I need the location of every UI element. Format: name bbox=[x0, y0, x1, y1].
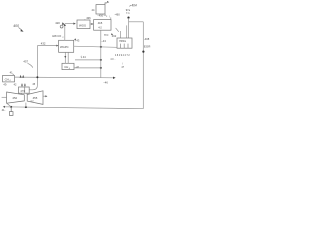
valve 420 symbol bbox=[62, 22, 65, 25]
label 412 bbox=[2, 108, 6, 112]
label 440 bbox=[92, 8, 95, 12]
wire WGS to 418 bbox=[90, 23, 92, 25]
WGS box bbox=[77, 20, 90, 29]
svg-text:41-: 41- bbox=[2, 108, 6, 112]
label H2 N2 bbox=[104, 34, 109, 37]
wire y68 condenser to downcomer bbox=[74, 67, 101, 69]
svg-text:H N: H N bbox=[104, 34, 109, 37]
EGR leader dot bbox=[142, 51, 144, 53]
svg-text:WGS: WGS bbox=[79, 24, 86, 28]
wire exhaust riser to HRSG bbox=[128, 18, 130, 38]
combustor to turbine stub bbox=[26, 93, 28, 94]
label 460 bbox=[114, 13, 120, 17]
combustor to compressor stub bbox=[20, 93, 22, 94]
wire top branch to EGR bbox=[129, 21, 144, 23]
svg-text:HRSG: HRSG bbox=[119, 40, 126, 43]
compressor inlet diagonal bbox=[7, 103, 11, 107]
labels below HRSG bbox=[115, 55, 130, 57]
tab on 442 bbox=[105, 3, 107, 5]
junction dot fuel/riser bbox=[36, 76, 38, 78]
combustor feed lines bbox=[21, 83, 23, 87]
labels 4?4 right middle bbox=[122, 63, 123, 66]
leader arrow for 400 bbox=[19, 28, 23, 31]
shaft junction dot bbox=[25, 106, 27, 108]
svg-text:404: 404 bbox=[131, 3, 137, 7]
label 462 bbox=[112, 34, 117, 38]
svg-text:43-: 43- bbox=[3, 83, 7, 87]
junction dot on long line bbox=[100, 46, 102, 48]
condenser box under WGPC bbox=[62, 63, 74, 69]
WGPC to condenser lines bbox=[64, 52, 66, 63]
svg-text:428 CO: 428 CO bbox=[52, 34, 61, 38]
wire valve to WGS bbox=[65, 23, 74, 25]
combustor box bbox=[19, 87, 30, 93]
svg-text:CH: CH bbox=[64, 65, 68, 69]
fuel line bbox=[15, 76, 101, 79]
svg-text:420: 420 bbox=[55, 21, 60, 25]
svg-text:452: 452 bbox=[12, 96, 17, 100]
left end arrow bbox=[3, 106, 5, 108]
label 42 left of combustor feeds bbox=[14, 84, 17, 87]
bottom EGR return line bbox=[4, 107, 143, 109]
separator box 442 (top) bbox=[96, 5, 105, 14]
label 414 bbox=[10, 70, 13, 74]
reformer box 418 bbox=[94, 20, 111, 31]
O2 stub from 418 bbox=[110, 17, 112, 19]
drain junction dot bbox=[10, 106, 12, 108]
svg-text:~43: ~43 bbox=[101, 39, 106, 43]
vertical line from 418 down bbox=[100, 30, 102, 77]
svg-text:41B: 41B bbox=[98, 22, 103, 25]
svg-text:~46: ~46 bbox=[103, 80, 108, 84]
label 408 bbox=[144, 37, 150, 41]
svg-text:457: 457 bbox=[23, 60, 28, 64]
svg-text:4?4: 4?4 bbox=[20, 89, 25, 93]
CH4 box bbox=[3, 75, 15, 82]
turbine exhaust stub bbox=[43, 95, 46, 97]
shaft stub bbox=[25, 103, 27, 108]
svg-text:4 8 4 9 4 2 7 2: 4 8 4 9 4 2 7 2 bbox=[115, 55, 130, 57]
EGR downcomer bbox=[142, 22, 144, 109]
svg-text:436: 436 bbox=[86, 16, 91, 20]
svg-text:WGPC: WGPC bbox=[60, 45, 69, 49]
drain symbol bbox=[9, 107, 13, 116]
label 456 bbox=[97, 15, 103, 18]
label 430 bbox=[3, 83, 7, 87]
svg-text:455: 455 bbox=[33, 96, 38, 100]
label 4?0 below turbine bbox=[30, 101, 34, 103]
label 404 bbox=[131, 3, 137, 7]
label O2 bbox=[104, 13, 108, 18]
svg-text:-42: -42 bbox=[75, 66, 79, 69]
svg-text:41: 41 bbox=[10, 70, 13, 74]
svg-text:-408: -408 bbox=[144, 37, 150, 41]
air inlet line bbox=[2, 96, 7, 98]
label 45 right of combustor bbox=[32, 83, 35, 86]
svg-text:400: 400 bbox=[13, 24, 19, 28]
turbine bbox=[27, 91, 43, 105]
third riser above HRSG bbox=[120, 31, 122, 38]
svg-text:4 0 ..: 4 0 .. bbox=[110, 59, 115, 61]
label 457 bbox=[23, 60, 28, 64]
svg-text:CH: CH bbox=[5, 77, 9, 81]
junction dot 404 line bbox=[127, 17, 129, 19]
fuel line arrow end bbox=[101, 77, 114, 79]
valve 420 label bbox=[55, 21, 60, 25]
figure label 400 bbox=[13, 24, 19, 28]
svg-text:432: 432 bbox=[41, 41, 46, 45]
riser to mixer bbox=[36, 46, 38, 86]
svg-text:7-1: 7-1 bbox=[126, 12, 130, 15]
HRSG box bbox=[117, 38, 132, 48]
CO2 vent line bbox=[64, 26, 66, 41]
long exhaust line WGPC to HRSG bbox=[74, 46, 117, 47]
wire 432 into WGPC bbox=[37, 45, 56, 47]
HRSG internal tubes bbox=[119, 44, 121, 49]
label EGR bbox=[144, 44, 151, 48]
label 428 CO2 bbox=[52, 34, 64, 39]
arrow 434 bbox=[74, 40, 76, 42]
compressor bbox=[7, 92, 25, 103]
second riser above HRSG bbox=[126, 25, 128, 38]
fuel valve bbox=[20, 75, 22, 78]
svg-text:4-2: 4-2 bbox=[98, 26, 102, 29]
wire y60 condenser to downcomer bbox=[75, 59, 101, 61]
labels 47a 7-1 bbox=[126, 9, 131, 12]
label 436 bbox=[86, 16, 91, 20]
label 467 bbox=[103, 80, 108, 84]
svg-text:-460: -460 bbox=[114, 13, 120, 17]
label 438 bbox=[101, 39, 106, 43]
svg-text:EGR: EGR bbox=[144, 44, 151, 48]
WGPC box bbox=[59, 40, 74, 52]
